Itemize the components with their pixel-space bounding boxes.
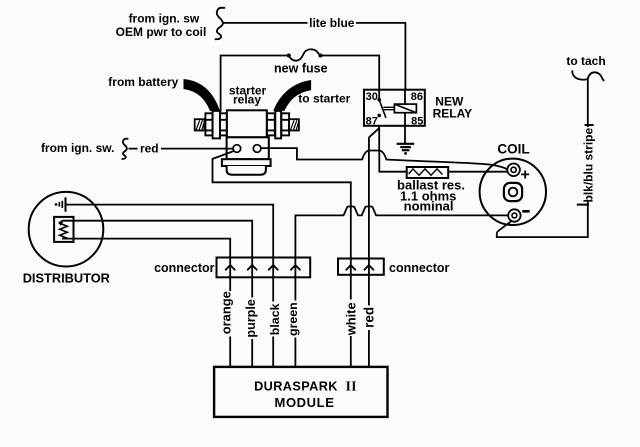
break symbol at OEM pwr wire	[215, 8, 225, 40]
coil + terminal	[507, 164, 520, 177]
wire: coil - to module (green) with hops	[295, 207, 508, 367]
relay pin label 85	[411, 116, 423, 128]
starter relay: right washer	[275, 111, 281, 138]
distributor pickup stator bars	[55, 197, 66, 211]
relay internal: switch arm	[379, 100, 386, 118]
svg-text:86: 86	[411, 91, 423, 103]
svg-text:from ign. sw: from ign. sw	[129, 11, 200, 25]
coil - terminal	[508, 209, 520, 221]
svg-text:87: 87	[366, 116, 378, 128]
arrow: to starter (thick curved arrow)	[274, 81, 311, 111]
wire color label: red	[361, 306, 376, 331]
label DURASPARK II MODULE	[254, 379, 357, 411]
label COIL	[497, 141, 529, 156]
relay internal: armature linkage	[383, 107, 394, 109]
label "ballast res. 1.1 ohms nominal"	[397, 177, 465, 213]
starter relay: left inner nut	[205, 113, 212, 135]
wire color label: black	[267, 302, 282, 337]
label "blk/blu stripe" (rotated)	[577, 125, 596, 205]
starter relay: terminal I (left small post)	[233, 145, 241, 153]
starter relay: right nut	[281, 113, 289, 135]
wire: relay pin 85 to ground	[404, 113, 406, 144]
svg-text:MODULE: MODULE	[275, 395, 335, 410]
ground symbol (relay 85)	[397, 144, 415, 155]
svg-text:nominal: nominal	[404, 199, 454, 214]
coil circle	[480, 159, 546, 225]
relay internal: pin30 lead and contact	[377, 90, 381, 102]
label +	[521, 167, 530, 184]
label "to tach"	[566, 54, 605, 68]
label -	[522, 210, 529, 213]
svg-text:new fuse: new fuse	[274, 62, 328, 76]
fuse F1 (new fuse)	[287, 49, 323, 60]
svg-text:lite blue: lite blue	[309, 16, 355, 30]
svg-text:black: black	[268, 303, 282, 335]
wire: coil - to tach (blk/blu stripe)	[497, 79, 588, 237]
svg-text:relay: relay	[233, 92, 261, 106]
arrow: from battery (thick curved arrow)	[184, 80, 219, 111]
break symbol at tach wire	[572, 70, 604, 81]
break symbol at ign. sw red wire	[122, 139, 129, 159]
svg-text:purple: purple	[244, 299, 258, 337]
connector (left, 4-pin)	[217, 258, 311, 278]
coil HT center terminal	[504, 183, 522, 201]
svg-text:30: 30	[366, 91, 378, 103]
relay pin label 86	[411, 91, 423, 103]
label DISTRIBUTOR	[23, 271, 110, 286]
connector (right, 2-pin)	[338, 259, 384, 275]
relay pin label 30	[366, 91, 378, 103]
svg-text:DURASPARK II: DURASPARK II	[254, 379, 357, 394]
starter relay: terminal S (right small post)	[253, 145, 261, 153]
svg-text:red: red	[361, 307, 376, 328]
ballast resistor R1	[407, 167, 449, 178]
label "to starter"	[298, 91, 350, 105]
label "new fuse"	[274, 62, 328, 76]
svg-text:RELAY: RELAY	[433, 107, 473, 121]
wire color label: white	[344, 300, 359, 337]
distributor pickup coil box	[54, 217, 73, 242]
label "from ign. sw"	[116, 11, 207, 39]
svg-text:red: red	[140, 142, 159, 156]
svg-text:blk/blu stripe: blk/blu stripe	[581, 127, 595, 202]
label "red"	[140, 142, 159, 156]
starter relay: right adapter nut	[267, 113, 275, 135]
svg-text:from ign. sw.: from ign. sw.	[41, 141, 115, 155]
svg-text:green: green	[286, 302, 300, 336]
DURASPARK II MODULE box	[214, 367, 387, 417]
wire: red feed to module	[368, 137, 370, 367]
svg-text:+: +	[521, 167, 530, 184]
starter relay: left adapter nut	[220, 113, 227, 135]
label "starter relay"	[229, 83, 267, 106]
label "NEW RELAY"	[433, 95, 473, 121]
svg-text:orange: orange	[219, 291, 234, 334]
label "connector" (right)	[389, 261, 450, 275]
wire: 87 diagonal to red feed	[369, 128, 379, 137]
starter relay: right terminal stud (threaded)	[289, 119, 299, 130]
relay pin label 87	[366, 116, 378, 128]
wire color label: purple	[244, 298, 259, 340]
starter relay: main body	[227, 110, 267, 137]
wire: OEM power feed (lite blue) to relay pin 86	[223, 23, 405, 90]
relay internal: coil element	[394, 104, 416, 113]
wire: distributor ground to module (black)	[66, 205, 274, 367]
wire color label: orange	[219, 291, 237, 337]
label "from ign. sw."	[41, 141, 115, 155]
starter relay: bottom cup	[227, 166, 266, 175]
wire: ign. sw red wire to terminal I	[129, 148, 234, 150]
svg-text:connector: connector	[154, 261, 215, 275]
svg-text:to starter: to starter	[298, 91, 350, 105]
svg-text:85: 85	[411, 116, 423, 128]
svg-text:COIL: COIL	[497, 141, 529, 156]
label "lite blue"	[308, 15, 357, 31]
svg-text:from battery: from battery	[108, 75, 178, 89]
wire: terminal I to module (white)	[213, 151, 351, 367]
wire: distributor pickup to module (purple)	[62, 221, 252, 367]
label "from battery"	[108, 75, 178, 89]
starter relay: lower body	[227, 137, 269, 159]
starter relay: left washer	[213, 111, 220, 138]
wire: relay 87 / ballast feed branch	[379, 151, 507, 172]
relay internal: pin86 lead	[404, 90, 406, 104]
wire color label: green	[286, 301, 302, 338]
svg-text:DISTRIBUTOR: DISTRIBUTOR	[23, 271, 110, 286]
svg-text:connector: connector	[389, 261, 450, 275]
svg-text:to tach: to tach	[566, 54, 605, 68]
connector pin arrows (right)	[346, 265, 374, 270]
wire: terminal S to coil + (with hop)	[261, 148, 508, 169]
starter relay: left terminal stud (threaded)	[195, 119, 205, 130]
starter relay: mounting flange	[222, 159, 271, 166]
distributor circle	[29, 192, 104, 267]
NEW RELAY box	[364, 90, 425, 126]
wire: distributor pickup to module (orange)	[62, 239, 230, 367]
connector pin arrows	[225, 265, 300, 270]
label "connector" (left)	[154, 261, 215, 275]
relay internal: pin87 contact	[377, 114, 381, 118]
wire: relay 87 stub	[378, 126, 380, 150]
svg-text:white: white	[344, 302, 359, 336]
wire: new fused feed to relay pin 30	[221, 56, 380, 112]
svg-text:OEM pwr to coil: OEM pwr to coil	[116, 25, 207, 39]
